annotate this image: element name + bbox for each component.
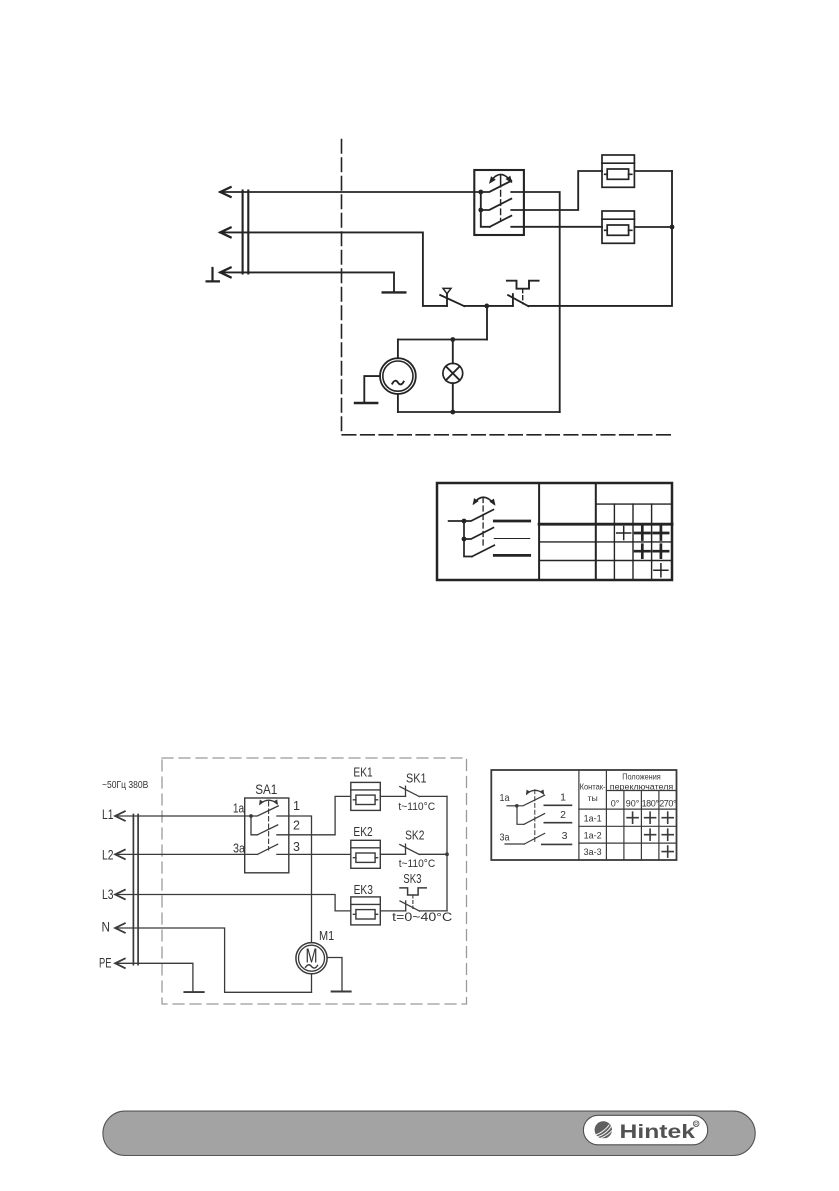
svg-text:L3: L3 <box>102 887 114 902</box>
wire: switch output 1 to bottom rail <box>511 192 559 412</box>
svg-text:M: M <box>306 946 318 968</box>
wire: motor case ground lead <box>364 376 380 402</box>
thermostat contact (thermal, with triangle) <box>446 294 448 306</box>
blade 1a-1 <box>517 795 545 806</box>
rotation arc <box>474 497 494 504</box>
plus marks row 1 <box>617 527 631 540</box>
node dot <box>515 804 519 808</box>
thermostat SK3 with manual reset <box>405 901 407 911</box>
node dot 1 <box>462 519 467 524</box>
blade 2 <box>464 528 493 539</box>
svg-text:EK3: EK3 <box>354 883 373 897</box>
svg-text:0°: 0° <box>611 798 620 808</box>
ground bar of wire 3 <box>383 291 406 293</box>
table switch symbol: 1a input <box>507 805 517 807</box>
svg-text:270°: 270° <box>659 798 677 808</box>
node dot 2 <box>462 537 467 542</box>
svg-text:2: 2 <box>560 809 566 821</box>
common link <box>517 806 524 825</box>
svg-text:PE: PE <box>99 955 112 970</box>
heater EK3 <box>351 897 381 925</box>
wire EK3 to SK3 <box>380 910 405 912</box>
registered mark <box>693 1121 699 1127</box>
rotation arc <box>527 790 544 793</box>
node: rail junction dot <box>445 852 449 856</box>
table thick row line <box>539 523 672 526</box>
svg-text:L1: L1 <box>102 807 114 822</box>
node: lamp top junction dot <box>450 337 455 342</box>
svg-text:t=0~40°C: t=0~40°C <box>392 910 452 924</box>
svg-text:ты: ты <box>587 793 597 803</box>
rotation arc with arrowheads <box>491 174 511 181</box>
svg-text:EK1: EK1 <box>353 766 372 780</box>
svg-text:t~110°C: t~110°C <box>398 801 435 813</box>
table vertical dividers <box>538 483 540 580</box>
wire N with arrow <box>115 928 312 992</box>
bottom schematic labels <box>99 766 453 971</box>
svg-text:Hintek: Hintek <box>620 1121 696 1143</box>
wire EK2 to SK2 <box>380 853 405 855</box>
svg-text:3а: 3а <box>233 841 245 855</box>
svg-text:1а-2: 1а-2 <box>584 830 602 840</box>
node: rail junction dot <box>670 225 675 230</box>
table header line <box>596 503 672 505</box>
svg-text:180°: 180° <box>642 798 660 808</box>
SA1 blade 3a-3 <box>257 844 277 854</box>
svg-text:SK2: SK2 <box>405 828 424 842</box>
wire: motor top lead <box>397 340 399 359</box>
wire: right rail <box>446 796 448 911</box>
wire: lamp top lead <box>452 340 454 364</box>
svg-text:1а: 1а <box>233 801 244 815</box>
plus marks row 1a-2 <box>645 829 674 840</box>
wire: motor bottom lead <box>311 974 313 993</box>
white logo pill <box>583 1115 707 1145</box>
wire: right return rail <box>528 171 672 306</box>
svg-text:N: N <box>102 919 111 934</box>
svg-text:~50Гц 380В: ~50Гц 380В <box>102 779 148 791</box>
svg-text:t~110°C: t~110°C <box>399 858 436 870</box>
blade 3 <box>472 545 494 556</box>
blade 1 <box>464 510 493 521</box>
switch blade 1 <box>481 181 512 192</box>
svg-text:1: 1 <box>560 792 566 804</box>
svg-text:3: 3 <box>562 830 568 842</box>
svg-text:2: 2 <box>293 819 300 833</box>
SA1 blade 1a-1 <box>251 806 278 816</box>
table switch symbol: input wire <box>449 520 464 522</box>
table texts <box>500 772 678 858</box>
wire: lamp/motor top rail <box>398 339 487 341</box>
wire L1-top with terminal arrow <box>220 191 481 193</box>
blade 1a-2 <box>524 814 545 825</box>
wire: motor bottom lead <box>397 394 399 412</box>
svg-text:SK3: SK3 <box>403 872 421 886</box>
svg-text:1а-1: 1а-1 <box>584 813 602 823</box>
svg-text:SK1: SK1 <box>406 772 427 786</box>
table outer border <box>491 770 676 860</box>
wire: output 3 to EK2 <box>277 853 351 855</box>
node: junction dot 2 <box>478 208 483 213</box>
switch blade 2 <box>481 199 512 210</box>
axis dashed <box>534 790 536 842</box>
wire 2 with terminal arrow <box>220 232 447 306</box>
blade 3a-3 <box>524 833 544 844</box>
node: input junction dot 1 <box>478 190 483 195</box>
contact stub 2 (thin) <box>494 538 529 540</box>
wire: heater lower right <box>634 226 672 228</box>
svg-text:Положения: Положения <box>622 772 661 782</box>
svg-text:3а: 3а <box>500 831 510 843</box>
motor M1 double circle <box>296 943 327 974</box>
plus marks row 1a-1 <box>627 812 673 823</box>
svg-text:M1: M1 <box>319 929 334 943</box>
thermostat SK1 <box>405 786 407 796</box>
svg-text:3: 3 <box>293 840 300 854</box>
dashed enclosure border (dash-dot L) <box>342 140 672 435</box>
svg-text:90°: 90° <box>626 798 640 808</box>
SA1 axis dashed <box>268 802 270 851</box>
node: 1a junction dot <box>249 814 253 818</box>
SA1 blade 1a-2 <box>257 825 277 835</box>
heater element EK (upper) <box>602 155 634 187</box>
heater EK1 <box>351 782 381 810</box>
svg-text:переключателя: переключателя <box>610 781 674 791</box>
wire L2 with arrow <box>115 853 257 855</box>
wire: output 1 to motor <box>277 816 312 943</box>
svg-text:R: R <box>694 1122 698 1128</box>
wire: common feed link <box>481 192 490 227</box>
dashed enclosure rectangle <box>162 758 467 1004</box>
common link <box>464 521 472 557</box>
PE ground bar <box>184 991 203 993</box>
plus marks row 3 <box>654 564 668 577</box>
heater EK2 <box>351 840 381 868</box>
wire EK1 to SK1 <box>380 795 405 797</box>
wire: output 2 to EK1 <box>277 796 351 834</box>
contact stub 3 (bold) <box>494 554 529 557</box>
svg-text:1а: 1а <box>500 792 510 804</box>
plus marks row 3a-3 <box>662 846 673 857</box>
wire: switch output 2 to heater 1 <box>511 171 602 210</box>
motor ground bar <box>355 402 377 404</box>
thermal cutout with manual reset <box>487 305 513 307</box>
svg-text:1: 1 <box>293 799 300 813</box>
PE terminal mark <box>207 268 219 281</box>
wire L3 with arrow <box>115 895 351 911</box>
heater element EK (lower) <box>602 211 634 243</box>
wire PE with arrow <box>115 963 193 992</box>
SA1 rotation arc <box>260 800 277 804</box>
svg-text:Контак-: Контак- <box>580 781 606 791</box>
svg-text:L2: L2 <box>102 847 114 862</box>
wire L1 with arrow <box>115 815 251 817</box>
svg-text:SA1: SA1 <box>255 782 277 797</box>
motor (fan) double circle <box>380 358 416 394</box>
wire: motor case ground <box>327 958 342 992</box>
table dividers <box>579 770 607 860</box>
svg-text:3а-3: 3а-3 <box>584 847 602 857</box>
svg-text:EK2: EK2 <box>353 825 372 839</box>
wire 3 (PE) with terminal arrow <box>220 272 394 291</box>
motor ground bar <box>332 991 351 993</box>
cable bundle double lines <box>243 191 249 274</box>
wire: lamp bottom lead <box>452 383 454 412</box>
switch blade 3 <box>490 216 512 227</box>
contact stub 1 (bold) <box>494 520 529 523</box>
switch axis dashed line <box>500 175 502 187</box>
wire: bottom rail <box>398 411 560 413</box>
cable bundle double lines <box>133 815 138 965</box>
3a input <box>505 843 524 845</box>
switch SA1 block outline <box>245 798 289 873</box>
node: thermostat junction dot <box>484 304 489 309</box>
rotary switch block outline <box>474 170 524 235</box>
node: lamp bottom junction dot <box>450 410 455 415</box>
axis dashed <box>482 498 484 549</box>
table outer border <box>437 483 672 580</box>
SA1 common link 1a <box>251 816 257 835</box>
plus marks row 2 <box>635 545 668 558</box>
thermostat SK2 <box>405 844 407 854</box>
grey footer bar <box>103 1111 755 1155</box>
table row lines <box>539 542 672 561</box>
contact stubs <box>542 805 572 844</box>
wire: switch output 3 to heater 2 <box>511 226 602 228</box>
wire: heater upper right <box>634 170 672 172</box>
indicator lamp HL <box>443 363 463 383</box>
wire: node drop to lamp rail <box>486 306 488 340</box>
